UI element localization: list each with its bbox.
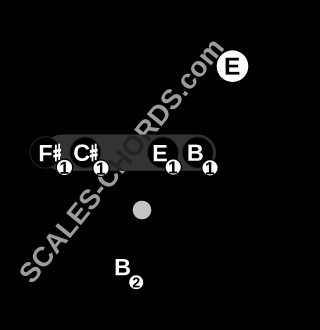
note label B (6th string) bbox=[116, 259, 130, 275]
label F of F# bbox=[40, 145, 52, 161]
barre band fret 1 bbox=[44, 135, 217, 171]
label E bbox=[154, 145, 167, 161]
watermark dark over band bbox=[18, 37, 225, 285]
finger badge 1 #3 bbox=[165, 159, 181, 175]
open root note E bbox=[217, 50, 249, 82]
note circle F# bbox=[30, 137, 61, 168]
note circle B bbox=[182, 137, 213, 168]
finger badge 1 #1 bbox=[56, 159, 72, 175]
label C of C# bbox=[74, 144, 89, 161]
finger badge 1 #2 bbox=[93, 160, 109, 176]
note circle E bbox=[147, 137, 178, 168]
note circle C# bbox=[70, 137, 101, 168]
sharp of C# bbox=[92, 145, 94, 162]
finger badge 1 #4 bbox=[202, 160, 218, 176]
sharp of F# bbox=[55, 145, 57, 162]
finger badge 2 bbox=[129, 275, 144, 290]
fret position marker dot bbox=[133, 201, 152, 220]
watermark SCALES-CHORDS.com (light) bbox=[18, 37, 225, 285]
label B bbox=[188, 145, 202, 161]
